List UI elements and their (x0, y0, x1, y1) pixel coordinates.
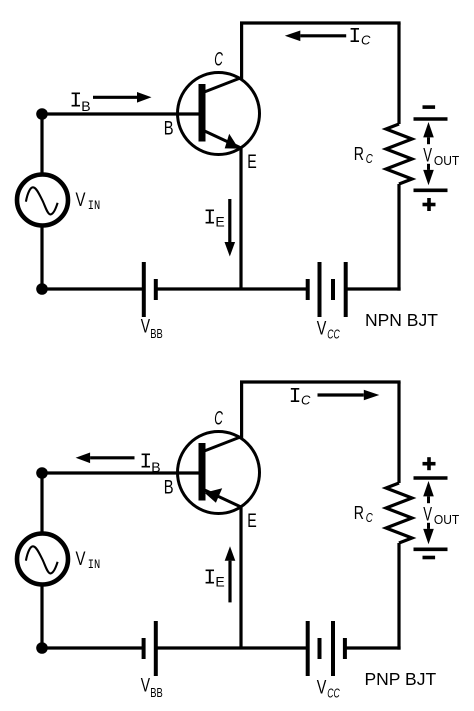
svg-text:E: E (247, 152, 257, 173)
current arrow I_B (points left, PNP) (76, 453, 91, 464)
current arrow I_C (points left, NPN) (285, 31, 301, 42)
svg-text:E: E (215, 574, 224, 590)
V_OUT measurement arrow (up) (423, 122, 434, 137)
wire: top rail (PNP) (240, 380, 401, 383)
wire: bottom rail right segment (V_CC to right branch) PNP (345, 646, 401, 649)
battery V_CC (NPN circuit, two cells) (306, 279, 310, 300)
svg-text:BB: BB (150, 326, 163, 341)
wire: node to V_IN source top (PNP) (40, 473, 43, 534)
transistor Q1 (PNP BJT) (178, 432, 260, 514)
V_OUT measurement arrow (down) (423, 170, 434, 185)
wire: resistor down to bottom rail (NPN) (397, 184, 400, 291)
svg-text:OUT: OUT (434, 153, 459, 168)
svg-text:I: I (349, 26, 362, 49)
svg-text:B: B (164, 119, 174, 140)
svg-text:B: B (151, 459, 160, 475)
resistor R_C (NPN circuit) (386, 124, 412, 184)
svg-text:C: C (301, 392, 311, 407)
wire: top rail down to resistor (NPN) (397, 23, 400, 124)
svg-text:CC: CC (327, 685, 340, 700)
wire: collector up to top rail (NPN) (240, 23, 243, 79)
svg-text:V: V (141, 317, 151, 338)
node: base input junction (NPN circuit) (36, 108, 48, 120)
wire: bottom rail right segment (V_CC to right branch) NPN (346, 287, 401, 290)
wire: bottom rail middle segment (V_BB to V_CC) NPN (156, 287, 308, 290)
current arrow I_C (points right, PNP) (364, 390, 380, 401)
transistor Q1 (NPN BJT) (178, 73, 260, 155)
svg-text:B: B (81, 98, 90, 114)
output polarity sign (+) bottom (423, 203, 436, 207)
svg-text:C: C (366, 510, 373, 525)
wire: emitter down to bottom rail (NPN) (239, 147, 242, 289)
svg-text:V: V (423, 146, 432, 167)
svg-text:IN: IN (88, 198, 101, 213)
V_OUT measurement arrow (up) (423, 481, 434, 496)
svg-text:V: V (76, 549, 86, 570)
svg-text:B: B (164, 478, 174, 499)
current arrow I_E (points down, NPN) (225, 242, 236, 257)
svg-text:OUT: OUT (434, 512, 459, 527)
svg-text:I: I (70, 91, 83, 114)
svg-text:V: V (423, 505, 432, 526)
ac source V_IN (NPN circuit) (17, 175, 68, 226)
svg-text:C: C (214, 408, 223, 429)
svg-text:V: V (141, 676, 151, 697)
node: lower-left junction (PNP circuit) (36, 642, 48, 654)
resistor R_C (PNP circuit) (386, 483, 412, 543)
svg-text:IN: IN (88, 557, 101, 572)
svg-text:CC: CC (327, 326, 340, 341)
wire: V_IN bottom to lower-left junction (PNP) (40, 584, 43, 648)
svg-text:C: C (366, 151, 373, 166)
current arrow I_B (points right, NPN) (137, 92, 152, 103)
wire: bottom rail middle segment (V_BB to V_CC) PNP (156, 646, 308, 649)
svg-text:NPN BJT: NPN BJT (365, 310, 438, 330)
svg-text:I: I (204, 207, 217, 230)
svg-text:I: I (289, 386, 302, 409)
wire: V_IN bottom to lower-left junction (NPN) (40, 225, 43, 289)
wire: bottom rail left segment (node to V_BB) NPN (42, 287, 144, 290)
current arrow I_E (points up, PNP) (225, 546, 236, 561)
svg-text:C: C (361, 32, 371, 47)
svg-text:I: I (204, 567, 217, 590)
output polarity sign (−) bottom (423, 556, 436, 560)
ac source V_IN (PNP circuit) (17, 534, 68, 585)
V_OUT bottom bar (414, 189, 448, 193)
V_OUT top bar (414, 476, 448, 480)
battery V_CC (PNP circuit, two cells reversed) (306, 621, 310, 676)
output polarity sign (−) top (423, 105, 436, 109)
output polarity sign (+) top (423, 462, 436, 466)
svg-text:E: E (215, 214, 224, 230)
svg-text:E: E (247, 511, 257, 532)
node: lower-left junction (NPN circuit) (36, 283, 48, 295)
wire: base wire from input node to transistor base (NPN) (42, 112, 202, 115)
wire: top rail down to resistor (PNP) (397, 382, 400, 483)
svg-text:R: R (354, 502, 364, 523)
battery V_BB (NPN circuit) (142, 262, 146, 317)
svg-text:BB: BB (150, 685, 163, 700)
svg-text:V: V (76, 190, 86, 211)
V_OUT bottom bar (414, 547, 448, 551)
svg-text:R: R (354, 143, 364, 164)
wire: emitter down to bottom rail (PNP) (239, 506, 242, 648)
wire: resistor down to bottom rail (PNP) (397, 543, 400, 650)
wire: base wire from input node to transistor base (PNP) (42, 471, 202, 474)
wire: bottom rail left segment (node to V_BB) PNP (42, 646, 144, 649)
node: base input junction (PNP circuit) (36, 467, 48, 479)
V_OUT measurement arrow (down) (423, 529, 434, 544)
wire: collector up to top rail (PNP) (240, 382, 243, 438)
wire: top rail (NPN) (240, 21, 401, 24)
svg-text:PNP BJT: PNP BJT (365, 669, 437, 689)
svg-text:I: I (140, 451, 153, 474)
svg-text:V: V (317, 677, 327, 698)
V_OUT top bar (414, 117, 448, 121)
battery V_BB (PNP circuit, reversed) (142, 638, 146, 659)
svg-text:V: V (317, 318, 327, 339)
svg-text:C: C (214, 49, 223, 70)
wire: node to V_IN source top (NPN) (40, 114, 43, 175)
